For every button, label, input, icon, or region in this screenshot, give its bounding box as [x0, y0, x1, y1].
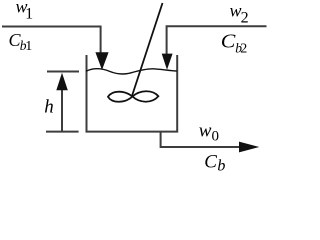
arrowhead inlet 1 — [95, 52, 108, 70]
svg-text:1: 1 — [25, 39, 32, 54]
dimension arrowhead — [56, 73, 68, 91]
arrowhead outlet — [239, 142, 259, 153]
outlet pipe — [161, 132, 240, 147]
wire w1 feed line — [2, 27, 101, 54]
arrowhead inlet 2 — [162, 54, 173, 70]
dimension arrow line — [61, 88, 63, 131]
impeller figure-8 blades — [108, 91, 158, 101]
svg-text:2: 2 — [240, 42, 247, 57]
stirrer shaft — [132, 3, 163, 97]
svg-text:C: C — [204, 152, 217, 173]
liquid surface — [86, 69, 177, 74]
svg-text:b: b — [217, 157, 225, 174]
wire w2 feed line — [167, 26, 267, 54]
tank vessel — [87, 55, 178, 132]
svg-text:2: 2 — [241, 10, 249, 27]
svg-text:1: 1 — [25, 6, 33, 23]
svg-text:0: 0 — [212, 129, 220, 145]
dimension bottom tick — [46, 131, 79, 133]
dimension top tick — [47, 71, 79, 73]
svg-text:w: w — [199, 120, 212, 141]
svg-text:h: h — [44, 96, 54, 117]
svg-text:C: C — [221, 31, 236, 52]
